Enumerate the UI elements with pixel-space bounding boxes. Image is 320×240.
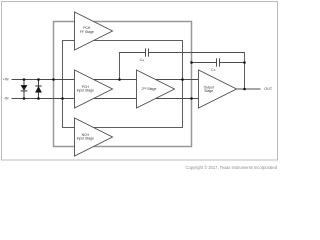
capacitor Ca bbox=[145, 48, 147, 56]
op-amp 2nd stage triangle bbox=[137, 70, 175, 108]
node inner-rect rail1 tap bbox=[181, 78, 184, 81]
wire: output node riser bbox=[244, 63, 246, 90]
node -IN riser junction bbox=[61, 97, 64, 100]
svg-text:Ca: Ca bbox=[140, 58, 145, 62]
svg-text:Input Stage: Input Stage bbox=[77, 89, 94, 93]
diode D1 (cathode down) bbox=[23, 80, 25, 86]
svg-text:Cb: Cb bbox=[211, 68, 216, 72]
figure frame bbox=[2, 2, 278, 161]
node OUT tap bbox=[243, 88, 246, 91]
node D2 anode bbox=[37, 97, 40, 100]
op-amp PCH input stage triangle bbox=[75, 70, 113, 108]
svg-text:-IN: -IN bbox=[4, 97, 9, 101]
svg-text:Copyright © 2017, Texas Instru: Copyright © 2017, Texas Instruments Inco… bbox=[186, 165, 278, 170]
wire: inner feedback rectangle (-IN net loop) bbox=[63, 41, 183, 128]
node Cb left bbox=[190, 61, 193, 64]
svg-text:Input Stage: Input Stage bbox=[77, 137, 94, 141]
wire: outer feedback rectangle (+IN net loop) bbox=[54, 22, 192, 147]
op-amp NCH input stage triangle bbox=[75, 118, 113, 156]
wire: Ca branch riser and run bbox=[120, 53, 245, 80]
node D1 anode bbox=[23, 78, 26, 81]
node Ca riser tap bbox=[118, 78, 121, 81]
wire: +IN rail bbox=[12, 79, 199, 81]
wire: -IN rail bbox=[12, 98, 199, 100]
capacitor Cb bbox=[216, 58, 218, 66]
op-amp output stage triangle bbox=[199, 70, 237, 108]
diode D2 (cathode up) bbox=[38, 80, 40, 87]
svg-text:+IN: +IN bbox=[3, 78, 9, 82]
node Cb right bbox=[243, 61, 246, 64]
op-amp FF stage triangle bbox=[75, 12, 113, 50]
node D1 cathode bbox=[23, 97, 26, 100]
svg-text:Stage: Stage bbox=[204, 89, 213, 93]
wire: OUT lead bbox=[237, 88, 261, 90]
svg-text:FF Stage: FF Stage bbox=[80, 30, 94, 34]
node outer-rect rail2 tap bbox=[190, 97, 193, 100]
wire: Cb line bbox=[192, 62, 245, 64]
node +IN riser junction bbox=[52, 78, 55, 81]
node D2 cathode bbox=[37, 78, 40, 81]
svg-text:OUT: OUT bbox=[264, 87, 273, 91]
